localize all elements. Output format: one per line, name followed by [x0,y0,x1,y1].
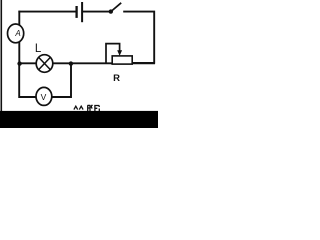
caption glyph-top marks (text cut by bar) [74,105,99,111]
wire top rail left segment [18,11,76,13]
battery cell long plate [81,2,83,22]
voltmeter V1 [36,87,52,105]
svg-text:A: A [14,29,20,38]
svg-text:L: L [35,43,42,55]
left image border line [0,0,2,112]
node right junction [69,61,73,65]
svg-text:V: V [41,92,47,102]
rheostat slider wire [106,44,120,64]
battery cell short plate [75,6,77,18]
wire battery to switch [83,11,111,13]
wire right rail bottom corner [132,62,155,64]
rheostat slider arrowhead [117,50,122,56]
lamp L [36,55,53,73]
wire left rail [18,11,20,64]
switch pivot dot [109,9,113,13]
switch blade (open) [111,3,121,12]
wire switch to top-right corner and right rail down [123,12,154,63]
black censor bar bottom [0,111,158,128]
ammeter A1 [8,24,24,43]
resistor body R [112,56,132,64]
wire middle rail [18,62,155,64]
svg-text:R: R [113,73,120,84]
wire voltmeter parallel loop [19,64,71,97]
node left junction [17,61,21,65]
